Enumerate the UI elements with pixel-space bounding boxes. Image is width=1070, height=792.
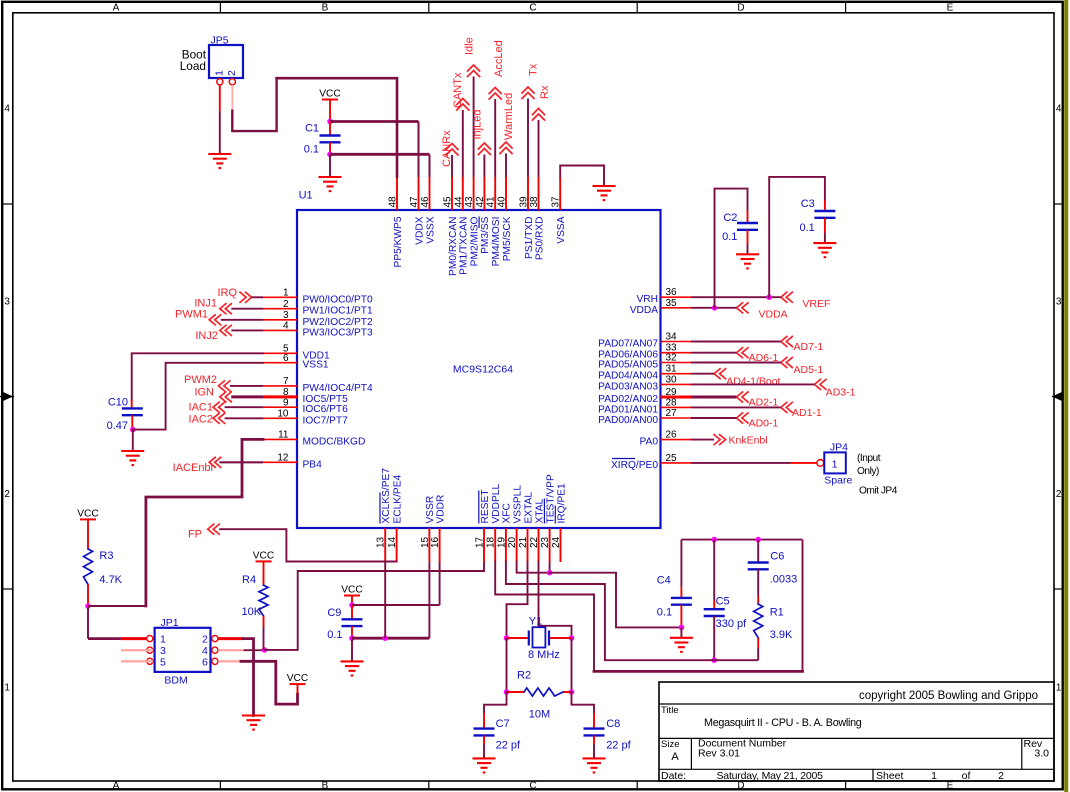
svg-text:47: 47 [409, 196, 420, 208]
svg-text:AccLed: AccLed [493, 40, 505, 77]
svg-text:VSSPLL: VSSPLL [512, 485, 523, 524]
svg-text:VCC: VCC [253, 550, 275, 561]
svg-text:IOC6/PT6: IOC6/PT6 [303, 404, 349, 415]
svg-text:22 pf: 22 pf [496, 740, 521, 752]
svg-text:16: 16 [430, 536, 441, 548]
svg-text:D: D [737, 3, 744, 14]
svg-text:7: 7 [283, 376, 289, 387]
svg-text:IAC1: IAC1 [189, 402, 213, 414]
svg-text:26: 26 [666, 430, 678, 441]
svg-text:VSSX: VSSX [425, 216, 436, 243]
svg-text:VCC: VCC [287, 673, 309, 684]
svg-text:37: 37 [551, 196, 562, 208]
svg-text:30: 30 [666, 374, 678, 385]
svg-text:Load: Load [180, 59, 206, 73]
svg-text:IAC2: IAC2 [189, 413, 213, 425]
svg-text:C: C [529, 781, 536, 792]
svg-text:2: 2 [283, 299, 289, 310]
svg-text:AD3-1: AD3-1 [826, 387, 856, 399]
svg-text:32: 32 [666, 353, 678, 364]
svg-text:29: 29 [666, 387, 678, 398]
svg-text:copyright 2005 Bowling and Gri: copyright 2005 Bowling and Grippo [859, 690, 1038, 702]
svg-text:A: A [671, 751, 679, 763]
svg-text:B: B [322, 3, 329, 14]
svg-text:EXTAL: EXTAL [523, 492, 534, 524]
svg-text:VCC: VCC [77, 508, 99, 519]
svg-text:AD5-1: AD5-1 [794, 364, 824, 376]
svg-text:6: 6 [202, 656, 208, 668]
svg-text:IOC7/PT7: IOC7/PT7 [303, 415, 349, 426]
svg-text:BDM: BDM [164, 675, 187, 687]
svg-text:45: 45 [443, 196, 454, 208]
svg-text:VCC: VCC [319, 89, 341, 100]
svg-text:1: 1 [160, 634, 166, 646]
svg-text:Megasquirt II - CPU - B. A. Bo: Megasquirt II - CPU - B. A. Bowling [704, 717, 862, 729]
svg-text:0.1: 0.1 [657, 607, 672, 619]
svg-text:21: 21 [518, 536, 529, 548]
svg-text:2: 2 [4, 489, 10, 500]
svg-text:2: 2 [202, 634, 208, 646]
svg-text:R3: R3 [99, 550, 113, 562]
svg-text:Size: Size [661, 739, 679, 750]
svg-text:Saturday, May 21, 2005: Saturday, May 21, 2005 [717, 770, 824, 782]
svg-text:20: 20 [507, 536, 518, 548]
svg-text:XFC: XFC [502, 503, 513, 523]
svg-text:3.0: 3.0 [1034, 748, 1049, 760]
svg-text:8 MHz: 8 MHz [528, 649, 560, 661]
svg-text:1: 1 [1056, 683, 1062, 694]
svg-text:22: 22 [529, 536, 540, 548]
svg-text:40: 40 [497, 196, 508, 208]
svg-text:PP5/KWP5: PP5/KWP5 [393, 216, 404, 267]
svg-text:PW4/IOC4/PT4: PW4/IOC4/PT4 [303, 383, 374, 394]
svg-text:PM4/MOSI: PM4/MOSI [491, 217, 502, 267]
svg-text:13: 13 [376, 536, 387, 548]
svg-text:IACEnbl: IACEnbl [173, 462, 213, 474]
svg-text:4: 4 [4, 104, 10, 115]
svg-text:17: 17 [475, 536, 486, 548]
svg-text:.0033: .0033 [770, 574, 798, 586]
svg-text:C3: C3 [801, 198, 815, 210]
svg-text:23: 23 [540, 536, 551, 548]
svg-text:42: 42 [475, 196, 486, 208]
svg-text:InjLed: InjLed [472, 110, 484, 140]
svg-text:27: 27 [666, 408, 678, 419]
svg-text:2: 2 [1056, 489, 1062, 500]
svg-text:39: 39 [519, 196, 530, 208]
svg-text:Tx: Tx [528, 63, 540, 76]
svg-text:0.1: 0.1 [722, 231, 737, 243]
svg-text:31: 31 [666, 364, 678, 375]
svg-text:IGN: IGN [194, 387, 214, 399]
svg-text:C8: C8 [606, 718, 620, 730]
svg-text:XIRQ/PE0: XIRQ/PE0 [611, 460, 658, 471]
svg-text:JP1: JP1 [161, 617, 179, 629]
svg-text:VSS1: VSS1 [303, 360, 329, 371]
svg-text:Rev 3.01: Rev 3.01 [698, 748, 740, 760]
svg-text:MC9S12C64: MC9S12C64 [453, 364, 513, 376]
svg-text:KnkEnbl: KnkEnbl [729, 435, 768, 447]
svg-text:19: 19 [496, 536, 507, 548]
svg-text:PM0/RXCAN: PM0/RXCAN [448, 217, 459, 276]
svg-text:28: 28 [666, 397, 678, 408]
svg-text:VCC: VCC [341, 585, 363, 596]
svg-text:AD7-1: AD7-1 [794, 341, 824, 353]
svg-text:5: 5 [160, 656, 166, 668]
svg-text:18: 18 [486, 536, 497, 548]
svg-text:3: 3 [4, 297, 10, 308]
svg-text:Only): Only) [857, 466, 879, 477]
svg-text:3.9K: 3.9K [770, 629, 793, 641]
svg-text:C1: C1 [305, 123, 319, 135]
svg-text:PAD07/AN07: PAD07/AN07 [598, 339, 658, 350]
svg-text:46: 46 [420, 196, 431, 208]
svg-text:PW1/IOC1/PT1: PW1/IOC1/PT1 [303, 306, 374, 317]
svg-text:R1: R1 [770, 607, 784, 619]
svg-text:PAD01/AN01: PAD01/AN01 [598, 404, 658, 415]
svg-text:44: 44 [453, 196, 464, 208]
svg-text:AD0-1: AD0-1 [749, 417, 779, 429]
svg-text:2: 2 [998, 770, 1004, 782]
svg-text:2: 2 [226, 70, 238, 76]
svg-text:PM5/SCK: PM5/SCK [502, 216, 513, 261]
svg-text:C5: C5 [716, 596, 730, 608]
svg-text:38: 38 [529, 196, 540, 208]
svg-text:0.1: 0.1 [327, 629, 342, 641]
svg-text:VRH: VRH [636, 294, 658, 305]
svg-text:JP5: JP5 [211, 35, 229, 47]
svg-text:PAD03/AN03: PAD03/AN03 [598, 381, 658, 392]
svg-text:AD1-1: AD1-1 [792, 407, 822, 419]
svg-text:14: 14 [387, 536, 398, 548]
svg-text:PW3/IOC3/PT3: PW3/IOC3/PT3 [303, 327, 374, 338]
svg-text:3: 3 [283, 310, 289, 321]
svg-text:34: 34 [666, 332, 678, 343]
svg-text:IRQ: IRQ [217, 287, 237, 299]
svg-text:43: 43 [464, 196, 475, 208]
svg-text:C9: C9 [327, 607, 341, 619]
svg-text:12: 12 [277, 453, 289, 464]
svg-text:PAD04/AN04: PAD04/AN04 [598, 371, 658, 382]
svg-text:C2: C2 [723, 212, 737, 224]
svg-text:D: D [737, 781, 744, 792]
svg-text:Title: Title [661, 705, 679, 716]
svg-text:(Input: (Input [857, 453, 881, 464]
svg-text:9: 9 [283, 397, 289, 408]
svg-text:24: 24 [551, 536, 562, 548]
svg-text:PA0: PA0 [640, 437, 659, 448]
svg-text:10K: 10K [242, 606, 262, 618]
svg-text:R4: R4 [242, 574, 256, 586]
svg-text:PAD05/AN05: PAD05/AN05 [598, 360, 658, 371]
svg-text:JP4: JP4 [830, 442, 848, 454]
svg-text:36: 36 [666, 287, 678, 298]
svg-text:Rx: Rx [539, 85, 551, 99]
svg-text:A: A [113, 3, 120, 14]
svg-text:10M: 10M [529, 709, 550, 721]
svg-text:1: 1 [4, 683, 10, 694]
svg-text:330 pf: 330 pf [716, 618, 748, 630]
svg-text:10: 10 [277, 409, 289, 420]
svg-text:PM1/TXCAN: PM1/TXCAN [459, 216, 470, 274]
svg-text:XTAL: XTAL [534, 498, 545, 523]
svg-text:VDDR: VDDR [435, 495, 446, 524]
svg-text:PWM2: PWM2 [184, 374, 217, 386]
svg-text:INJ2: INJ2 [195, 330, 218, 342]
svg-text:AD4-1/Boot: AD4-1/Boot [726, 375, 780, 387]
svg-text:Sheet: Sheet [876, 770, 904, 782]
svg-text:Idle: Idle [464, 37, 476, 55]
svg-text:Spare: Spare [824, 475, 852, 487]
svg-text:C10: C10 [108, 397, 128, 409]
svg-text:PAD00/AN00: PAD00/AN00 [598, 415, 658, 426]
svg-text:C4: C4 [657, 575, 671, 587]
svg-text:0.47: 0.47 [107, 420, 128, 432]
svg-text:4.7K: 4.7K [99, 574, 122, 586]
svg-text:PW0/IOC0/PT0: PW0/IOC0/PT0 [303, 294, 374, 305]
svg-text:4: 4 [1056, 104, 1062, 115]
svg-text:PW2/IOC2/PT2: PW2/IOC2/PT2 [303, 317, 374, 328]
svg-text:A: A [113, 781, 120, 792]
svg-text:11: 11 [278, 430, 289, 441]
svg-text:1: 1 [283, 288, 289, 299]
svg-text:R2: R2 [517, 670, 531, 682]
svg-text:Y1: Y1 [529, 616, 542, 628]
svg-text:PS0/RXD: PS0/RXD [534, 217, 545, 261]
svg-text:41: 41 [486, 196, 497, 208]
svg-text:35: 35 [666, 298, 678, 309]
svg-text:VDDX: VDDX [414, 216, 425, 245]
svg-text:FP: FP [188, 529, 202, 541]
svg-text:XCLKS/PE7: XCLKS/PE7 [381, 468, 392, 524]
svg-text:of: of [962, 770, 971, 782]
svg-text:PS1/TXD: PS1/TXD [524, 217, 535, 259]
svg-text:3: 3 [1056, 297, 1062, 308]
svg-text:0.1: 0.1 [800, 222, 815, 234]
svg-text:E: E [947, 781, 954, 792]
svg-text:1: 1 [931, 770, 937, 782]
svg-text:48: 48 [388, 196, 399, 208]
svg-text:VDDA: VDDA [759, 309, 788, 321]
svg-text:ECLK/PE4: ECLK/PE4 [392, 474, 403, 523]
svg-text:0.1: 0.1 [304, 144, 319, 156]
svg-text:Omit JP4: Omit JP4 [859, 486, 898, 497]
svg-text:4: 4 [283, 321, 289, 332]
svg-text:25: 25 [666, 453, 678, 464]
svg-text:B: B [322, 781, 329, 792]
svg-text:IRQ/PE1: IRQ/PE1 [556, 483, 567, 524]
svg-text:MODC/BKGD: MODC/BKGD [303, 436, 366, 447]
svg-text:PB4: PB4 [303, 459, 323, 470]
svg-text:22 pf: 22 pf [606, 740, 631, 752]
svg-text:1: 1 [832, 459, 838, 471]
svg-text:VDDA: VDDA [630, 305, 659, 316]
svg-text:1: 1 [214, 70, 226, 76]
svg-text:WarmLed: WarmLed [503, 93, 515, 140]
svg-text:PAD02/AN02: PAD02/AN02 [598, 394, 658, 405]
svg-text:PWM1: PWM1 [175, 309, 208, 321]
svg-text:VSSA: VSSA [556, 216, 567, 243]
svg-text:C: C [529, 3, 536, 14]
svg-text:E: E [947, 3, 954, 14]
svg-text:Date:: Date: [661, 770, 686, 782]
svg-text:C7: C7 [496, 718, 510, 730]
svg-text:6: 6 [283, 353, 289, 364]
svg-text:VREF: VREF [802, 298, 830, 310]
svg-text:PM3/SS: PM3/SS [480, 216, 491, 254]
svg-text:C6: C6 [770, 551, 784, 563]
svg-text:VDDPLL: VDDPLL [491, 484, 502, 524]
svg-text:U1: U1 [299, 190, 313, 202]
svg-text:RESET: RESET [480, 490, 491, 524]
